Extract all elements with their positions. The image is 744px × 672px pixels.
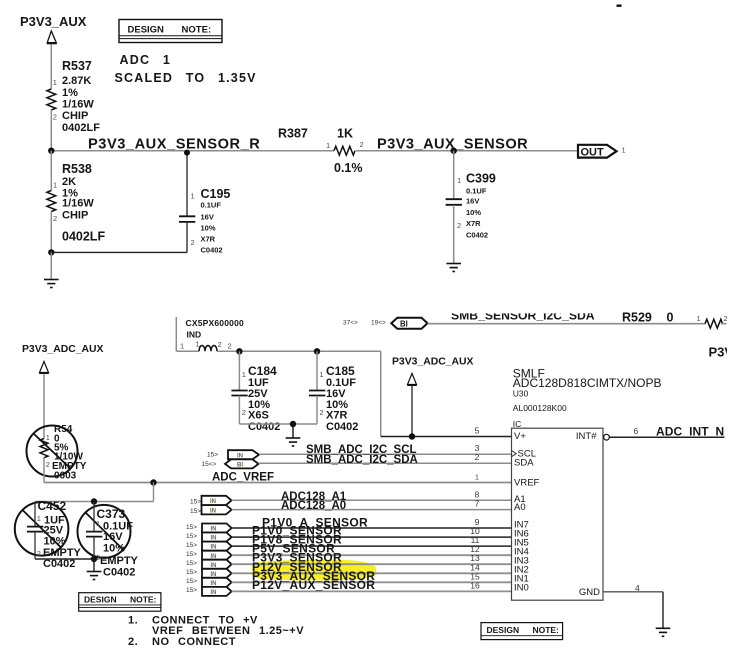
svg-text:16V: 16V [103, 531, 123, 543]
svg-text:1/16W: 1/16W [62, 198, 94, 210]
ground [446, 264, 461, 272]
resistor R54 (EMPTY, DNI circle) [27, 424, 87, 482]
power symbol P3V3_AUX [20, 14, 87, 43]
svg-text:2: 2 [46, 460, 50, 469]
junction node D [236, 348, 242, 354]
svg-text:A0: A0 [514, 502, 526, 513]
junction node I [91, 556, 97, 562]
svg-text:SCALED TO 1.35V: SCALED TO 1.35V [115, 71, 257, 85]
svg-text:37<>: 37<> [343, 320, 358, 327]
port IN (ADC128_A0) [190, 505, 232, 515]
svg-text:CX5PX600000: CX5PX600000 [186, 318, 245, 328]
port IN (SMB_ADC_I2C_SCL) [207, 450, 259, 459]
svg-text:SMB_ADC_I2C_SDA: SMB_ADC_I2C_SDA [306, 454, 418, 466]
svg-text:15>: 15> [186, 542, 197, 549]
wire P12V_SENSOR [232, 572, 512, 574]
port OUT [578, 145, 626, 159]
svg-text:C195: C195 [201, 187, 231, 201]
svg-text:C0402: C0402 [326, 421, 358, 433]
svg-text:0: 0 [667, 311, 674, 325]
svg-text:1K: 1K [337, 127, 353, 141]
wire V+ [381, 436, 512, 438]
svg-text:C452: C452 [38, 499, 67, 513]
svg-text:IN: IN [210, 499, 216, 505]
port IN (P5V_SENSOR) [186, 551, 232, 560]
svg-text:1: 1 [191, 192, 195, 201]
svg-text:ADC128_A0: ADC128_A0 [281, 500, 346, 512]
capacitor C399 [446, 151, 496, 263]
port IN (P12V_SENSOR) [186, 569, 232, 578]
ground [44, 280, 59, 288]
svg-text:P3V3_ADC_AUX: P3V3_ADC_AUX [392, 357, 473, 368]
wire GND [603, 591, 663, 593]
junction node A [48, 148, 54, 154]
svg-text:EMPTY: EMPTY [100, 555, 139, 567]
capacitor C452 (EMPTY, DNI circle) [15, 499, 82, 570]
svg-text:1: 1 [53, 78, 57, 87]
svg-text:1: 1 [53, 181, 57, 190]
svg-text:ADC_INT_N: ADC_INT_N [656, 425, 724, 439]
wire into inductor [175, 317, 177, 351]
port IN (P12V_AUX_SENSOR) [186, 587, 232, 596]
wire to ground [50, 252, 52, 279]
wire R387 to OUT [356, 150, 578, 152]
ground [87, 572, 102, 580]
svg-text:R537: R537 [62, 59, 92, 73]
svg-text:OUT: OUT [581, 147, 605, 159]
svg-text:NO CONNECT: NO CONNECT [152, 636, 236, 648]
junction node J [409, 433, 415, 439]
svg-text:15>: 15> [190, 499, 201, 506]
svg-text:15>: 15> [186, 569, 197, 576]
wire arrow to V+ [411, 386, 413, 437]
svg-text:2: 2 [53, 113, 57, 122]
power symbol P3V3_ADC_AUX [22, 344, 103, 373]
inductor CX5PX600000 [180, 318, 244, 351]
svg-text:C0402: C0402 [103, 567, 135, 579]
svg-text:P3V3_AUX_SENSOR: P3V3_AUX_SENSOR [377, 136, 528, 152]
power symbol P3V3_ADC_AUX (2) [392, 357, 473, 386]
svg-text:2: 2 [37, 549, 41, 558]
resistor R537 [47, 59, 100, 134]
svg-text:DESIGN NOTE:: DESIGN NOTE: [487, 625, 560, 635]
svg-text:0402LF: 0402LF [62, 122, 100, 134]
svg-text:15>: 15> [207, 452, 218, 459]
svg-text:X7R: X7R [201, 235, 216, 244]
junction node G [150, 479, 156, 485]
svg-text:1.: 1. [128, 615, 138, 627]
svg-text:SMB_SENSOR_I2C_SDA: SMB_SENSOR_I2C_SDA [451, 308, 595, 322]
svg-text:BI: BI [400, 320, 408, 329]
svg-text:10%: 10% [201, 224, 216, 233]
svg-text:2: 2 [191, 238, 195, 247]
wire bottom rail [51, 251, 187, 253]
svg-text:15>: 15> [186, 560, 197, 567]
svg-text:16: 16 [470, 580, 480, 590]
svg-text:15>: 15> [186, 524, 197, 531]
junction node C [48, 249, 54, 255]
svg-text:15>: 15> [186, 551, 197, 558]
svg-text:VREF: VREF [514, 478, 540, 489]
svg-text:10%: 10% [103, 543, 125, 555]
svg-text:ADC 1: ADC 1 [120, 53, 172, 67]
wire node to R387 [51, 150, 334, 152]
svg-text:IN: IN [237, 453, 243, 459]
capacitor C184 [231, 351, 280, 433]
svg-text:X7R: X7R [466, 219, 481, 228]
svg-text:C0402: C0402 [201, 246, 223, 255]
svg-text:0603: 0603 [54, 471, 77, 482]
svg-text:15>: 15> [186, 578, 197, 585]
wire SDA [259, 462, 512, 464]
svg-text:15>: 15> [186, 533, 197, 540]
wire P12V_AUX_SENSOR [232, 590, 512, 592]
svg-text:IC: IC [513, 419, 522, 429]
wire P3V3_SENSOR [232, 563, 512, 565]
svg-text:P3V3_ADC_AUX: P3V3_ADC_AUX [22, 344, 103, 355]
junction node F [290, 421, 296, 427]
svg-text:X7R: X7R [326, 410, 347, 422]
svg-text:15>: 15> [186, 587, 197, 594]
svg-text:16V: 16V [466, 197, 479, 206]
port IN (P1V0_SENSOR) [186, 533, 232, 542]
svg-text:C399: C399 [466, 172, 496, 186]
design note text [128, 615, 304, 648]
svg-text:19<>: 19<> [371, 320, 386, 327]
wire inductor to corner [217, 350, 381, 352]
port IN (P3V3_AUX_SENSOR) [186, 578, 232, 587]
clipped net label SMB_SENSOR_I2C_SDA [451, 308, 595, 322]
svg-text:2.87K: 2.87K [62, 75, 91, 87]
svg-text:1/16W: 1/16W [62, 99, 94, 111]
svg-text:2: 2 [724, 314, 728, 323]
junction node E [314, 348, 320, 354]
svg-text:2K: 2K [62, 176, 76, 188]
svg-text:DESIGN NOTE:: DESIGN NOTE: [128, 25, 212, 36]
wire ADC_INT_N [609, 436, 724, 438]
resistor R529 [622, 311, 728, 329]
port IN (P1V0_A_SENSOR) [186, 524, 232, 533]
svg-text:2: 2 [319, 408, 323, 417]
svg-text:1: 1 [622, 146, 626, 155]
svg-text:2: 2 [228, 342, 232, 351]
capacitor C373 (EMPTY, DNI circle) [78, 502, 139, 579]
wire P5V_SENSOR [232, 554, 512, 556]
svg-text:ADC128D818CIMTX/NOPB: ADC128D818CIMTX/NOPB [513, 376, 662, 390]
svg-text:0.1UF: 0.1UF [466, 187, 487, 196]
svg-text:2: 2 [360, 140, 364, 149]
svg-text:CHIP: CHIP [62, 210, 88, 222]
port BI (SMB_SENSOR_I2C_SDA) [391, 318, 427, 329]
svg-text:V+: V+ [514, 431, 526, 442]
svg-text:0.1%: 0.1% [334, 161, 363, 175]
port IN (P1V8_SENSOR) [186, 542, 232, 551]
svg-text:1: 1 [697, 314, 701, 323]
svg-text:0402LF: 0402LF [62, 230, 105, 244]
svg-text:P3V3_ADC: P3V3_ADC [709, 345, 744, 360]
svg-text:IND: IND [187, 330, 202, 340]
svg-text:5: 5 [475, 426, 480, 436]
svg-text:1: 1 [475, 472, 479, 481]
wire branch left [35, 501, 154, 503]
svg-text:DESIGN NOTE:: DESIGN NOTE: [84, 595, 157, 605]
svg-text:ADC_VREF: ADC_VREF [212, 472, 274, 484]
svg-text:P3V3_AUX: P3V3_AUX [20, 14, 87, 29]
junction node H [91, 498, 97, 504]
svg-text:IN0: IN0 [514, 583, 529, 594]
svg-text:1: 1 [46, 433, 50, 442]
svg-text:2.: 2. [128, 636, 138, 648]
design note box 2 [79, 593, 161, 612]
svg-text:C184: C184 [248, 364, 277, 378]
svg-text:U30: U30 [513, 389, 529, 399]
junction node B [451, 148, 457, 154]
svg-text:C0402: C0402 [466, 231, 488, 240]
svg-text:CHIP: CHIP [62, 110, 88, 122]
wire A0 [232, 509, 512, 511]
svg-text:2: 2 [475, 452, 480, 462]
svg-text:R529: R529 [622, 311, 652, 325]
svg-text:C0402: C0402 [43, 558, 75, 570]
design note box 3 [481, 623, 563, 640]
wire to ground [93, 559, 95, 571]
capacitor C195 [179, 150, 230, 255]
wire cap bottom rail [239, 423, 317, 425]
svg-text:16V: 16V [201, 213, 214, 222]
svg-text:R538: R538 [62, 162, 92, 176]
svg-text:1: 1 [242, 370, 246, 379]
wire A1 [232, 499, 512, 501]
svg-text:6: 6 [634, 426, 639, 436]
IC U30 ADC128D818 [512, 367, 662, 601]
svg-text:R387: R387 [278, 127, 308, 141]
svg-text:IN: IN [211, 590, 217, 596]
svg-text:1: 1 [457, 176, 461, 185]
svg-text:1%: 1% [62, 87, 78, 99]
wire P3V3_AUX_SENSOR [232, 581, 512, 583]
capacitor C185 [309, 351, 358, 433]
svg-text:2: 2 [457, 221, 461, 230]
svg-text:2: 2 [218, 340, 222, 349]
note text ADC 1 scaled [115, 53, 257, 85]
resistor R538 [47, 151, 106, 253]
wire R54 to VREF rail [43, 458, 45, 483]
svg-text:C185: C185 [326, 364, 355, 378]
svg-text:X6S: X6S [248, 410, 269, 422]
svg-text:INT#: INT# [576, 431, 597, 442]
svg-text:1: 1 [180, 342, 184, 351]
wire caps bottom rail [35, 558, 94, 560]
svg-text:7: 7 [475, 499, 480, 509]
svg-text:BI: BI [237, 463, 243, 469]
svg-text:P3V3_AUX_SENSOR_R: P3V3_AUX_SENSOR_R [88, 136, 260, 152]
wire P1V0_SENSOR [232, 536, 512, 538]
svg-text:1: 1 [37, 514, 41, 523]
stray ground tip mark [617, 4, 622, 6]
wire branch down [153, 483, 155, 502]
svg-text:1: 1 [196, 340, 200, 349]
svg-text:0.1UF: 0.1UF [201, 201, 222, 210]
port BI (SMB_ADC_I2C_SDA) [202, 459, 259, 468]
wire arrow to R54 [43, 374, 45, 439]
wire P1V0_A_SENSOR [232, 527, 512, 529]
svg-text:P12V_AUX_SENSOR: P12V_AUX_SENSOR [252, 578, 375, 592]
wire P1V8_SENSOR [232, 545, 512, 547]
svg-text:C373: C373 [97, 507, 126, 521]
wire corner down to V+ [380, 351, 382, 436]
svg-text:10%: 10% [466, 208, 481, 217]
svg-text:2: 2 [53, 214, 57, 223]
svg-text:15<>: 15<> [202, 461, 217, 468]
svg-text:C0402: C0402 [248, 421, 280, 433]
wire R537 to node [50, 110, 52, 151]
wire to ground [292, 424, 294, 438]
svg-text:GND: GND [579, 587, 600, 598]
port IN (P3V3_SENSOR) [186, 560, 232, 569]
clipped net label P3V [709, 345, 744, 360]
wire P3V3_AUX vertical [50, 44, 52, 89]
svg-text:AL000128K00: AL000128K00 [513, 403, 567, 413]
svg-text:1: 1 [319, 370, 323, 379]
svg-text:SDA: SDA [514, 458, 534, 469]
svg-text:4: 4 [635, 583, 640, 593]
design note box 1 [119, 20, 222, 43]
ground [656, 628, 671, 636]
wire SDA to R529 [428, 323, 706, 325]
svg-text:15>: 15> [190, 508, 201, 515]
port IN (ADC128_A1) [190, 496, 232, 506]
resistor R387 [278, 127, 364, 176]
svg-text:2: 2 [242, 408, 246, 417]
svg-text:10%: 10% [44, 536, 66, 548]
INT# bubble [604, 434, 610, 440]
wire SCL [259, 453, 512, 455]
svg-text:IN: IN [210, 508, 216, 514]
wire VREF rail [44, 482, 512, 484]
ground [286, 438, 301, 446]
svg-text:1: 1 [326, 141, 330, 150]
highlight marker yellow [252, 560, 377, 581]
